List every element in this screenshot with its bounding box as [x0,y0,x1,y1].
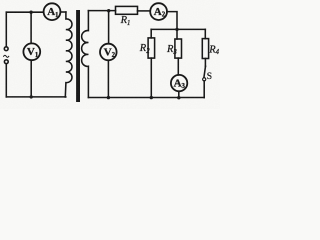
switch S hinge circle [203,78,206,81]
wire: A3 to bottom [178,91,180,97]
transformer core [76,10,80,102]
resistor R1 [116,6,138,14]
voltmeter V1 [23,43,40,60]
wire: primary bottom [6,96,65,98]
wire: R3 to A3 [177,58,179,75]
wire: V1 branch lower [30,60,32,97]
ammeter A3 [171,75,187,91]
wire: A2 to bus junction [167,12,177,30]
paper noise overlay [0,0,1,1]
wire: left vertical below source [5,64,7,97]
node: V2 bottom junction [107,96,110,99]
ammeter A1 [44,3,61,20]
node: V1 bottom junction [30,95,33,98]
resistor R4 [202,39,208,59]
wire: A1 to transformer primary [60,11,66,13]
wire: R4 to switch [204,59,206,67]
node: V1 top junction [29,11,32,14]
wire: bus to R3 [176,29,178,39]
transformer secondary coil [82,11,89,98]
resistor R2 [148,38,155,58]
resistor R3 [175,39,182,58]
wire: primary top-left [6,11,43,13]
AC source tilde [4,55,9,57]
AC source terminal bottom [4,60,8,64]
switch S blade [204,66,206,77]
voltmeter V2 [100,44,117,61]
wire: R1 to A2 [138,10,151,12]
wire: parallel bus [151,28,205,30]
transformer primary coil [65,12,72,97]
node: V2 top junction [107,9,110,12]
wire: bus to R2 [150,29,152,38]
node: A3 bottom junction [177,96,180,99]
wire: bus to R4 [204,29,206,38]
node: R2 bottom junction [150,96,153,99]
wire: secondary top to R1 [88,10,115,12]
wire: left vertical above source [5,12,7,46]
wire: secondary bottom [88,97,204,99]
ammeter A2 [150,3,167,20]
AC source terminal top [4,47,8,51]
wire: V1 branch upper [30,12,32,43]
wire: V2 branch upper [108,11,110,44]
node: bus feed junction [175,28,178,31]
wire: switch to bottom [203,81,205,98]
wire: R2 to bottom [150,58,152,98]
wire: V2 branch lower [107,60,109,97]
